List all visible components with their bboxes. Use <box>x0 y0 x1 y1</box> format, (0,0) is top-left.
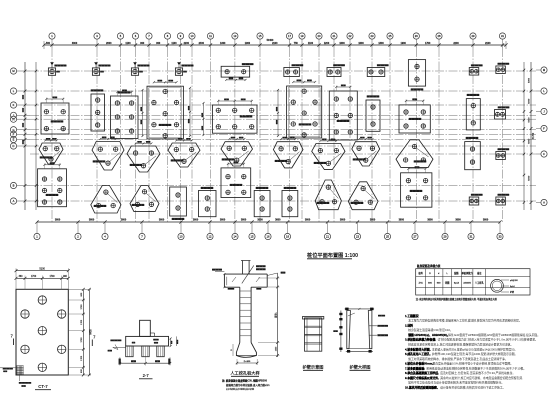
svg-text:3: 3 <box>96 34 98 38</box>
svg-text:φ8@200: φ8@200 <box>510 280 519 282</box>
svg-text:6φ14: 6φ14 <box>454 282 460 285</box>
svg-text:1: 1 <box>51 34 53 38</box>
svg-text:10: 10 <box>191 34 194 38</box>
svg-text:1900: 1900 <box>400 42 406 45</box>
svg-text:12: 12 <box>209 235 212 239</box>
svg-text:2100: 2100 <box>272 42 278 45</box>
svg-text:3300: 3300 <box>72 42 78 45</box>
svg-text:18: 18 <box>286 235 289 239</box>
svg-text:1: 1 <box>36 235 38 239</box>
svg-text:17: 17 <box>288 34 291 38</box>
svg-text:L: L <box>446 273 448 275</box>
svg-text:钢筋:HPB300(φ)、HRB335(Φ)。: 钢筋:HPB300(φ)、HRB335(Φ)。 <box>407 333 449 337</box>
svg-text:注: 未注明的承台均采用保护层翻边混凝土浇筑示意图连接大样,: 注: 未注明的承台均采用保护层翻边混凝土浇筑示意图连接大样, 平面详见各承台大样 <box>416 297 498 301</box>
svg-text:20: 20 <box>318 34 321 38</box>
svg-text:27: 27 <box>414 235 417 239</box>
svg-text:采用低应变动测法检测桩身完整性,检测数量不少于总桩数的30%: 采用低应变动测法检测桩身完整性,检测数量不少于总桩数的30%,且不少于10根。 <box>426 366 526 370</box>
svg-text:护壁示意图: 护壁示意图 <box>303 364 324 371</box>
svg-text:16: 16 <box>267 235 270 239</box>
svg-text:备注: 备注 <box>477 271 482 275</box>
svg-text:900: 900 <box>437 283 441 285</box>
svg-text:详图: 详图 <box>445 281 449 285</box>
svg-text:L: L <box>543 89 545 93</box>
svg-text:1600: 1600 <box>339 42 345 45</box>
svg-text:d: d <box>438 273 440 275</box>
svg-text:7: 7 <box>93 335 96 340</box>
svg-text:配筋: 配筋 <box>454 271 459 275</box>
svg-text:25: 25 <box>389 34 392 38</box>
svg-text:CT-7: CT-7 <box>38 384 48 389</box>
svg-text:750: 750 <box>294 42 299 45</box>
svg-text:19: 19 <box>301 34 304 38</box>
svg-text:3600: 3600 <box>455 219 461 222</box>
svg-text:3600: 3600 <box>55 219 61 222</box>
svg-text:31700: 31700 <box>533 132 535 139</box>
svg-text:3600: 3600 <box>159 219 165 222</box>
svg-text:K: K <box>13 103 15 107</box>
svg-text:2000: 2000 <box>106 42 112 45</box>
svg-text:1700: 1700 <box>81 355 83 361</box>
svg-text:1.工程概况: 1.工程概况 <box>405 314 419 318</box>
svg-text:900: 900 <box>81 292 83 296</box>
svg-text:360: 360 <box>19 276 24 278</box>
svg-text:1700: 1700 <box>81 304 83 310</box>
svg-text:3600: 3600 <box>220 219 226 222</box>
svg-text:护壁: 护壁 <box>510 290 514 294</box>
svg-text:5000: 5000 <box>529 175 531 181</box>
svg-text:15: 15 <box>251 235 254 239</box>
svg-text:垂直度允许偏差0.5%,桩径不得小于设计桩径,桩顶标高详平面: 垂直度允许偏差0.5%,桩径不得小于设计桩径,桩顶标高详平面图。 <box>432 362 513 366</box>
svg-text:主筋锚入承台内35d,箍筋φ8@200,加劲箍φ14@200: 主筋锚入承台内35d,箍筋φ8@200,加劲箍φ14@2000,保护层厚度50。 <box>432 347 517 351</box>
svg-text:B: B <box>13 184 15 188</box>
svg-text:33: 33 <box>499 235 502 239</box>
svg-text:6: 6 <box>135 34 137 38</box>
svg-text:21: 21 <box>333 34 336 38</box>
svg-text:1100: 1100 <box>171 42 177 45</box>
svg-text:5000: 5000 <box>529 98 531 104</box>
svg-text:2100: 2100 <box>485 42 491 45</box>
svg-text:M: M <box>12 69 15 73</box>
svg-text:3600: 3600 <box>121 219 127 222</box>
svg-text:单桩承载力: 单桩承载力 <box>462 271 473 275</box>
svg-text:3600: 3600 <box>340 219 346 222</box>
svg-text:2: 2 <box>77 235 79 239</box>
svg-text:J: J <box>13 113 15 117</box>
svg-text:1700: 1700 <box>81 319 83 325</box>
svg-text:注: 桩身混凝土强度等级C30, 钢筋HPB300: 注: 桩身混凝土强度等级C30, 钢筋HPB300 <box>222 379 268 383</box>
svg-text:8.承台及基础梁施工完毕后,: 8.承台及基础梁施工完毕后, <box>405 371 439 375</box>
svg-text:31: 31 <box>501 34 504 38</box>
svg-text:23: 23 <box>356 235 359 239</box>
svg-text:3600: 3600 <box>257 219 263 222</box>
svg-text:桩身配筋及承载力表: 桩身配筋及承载力表 <box>416 264 441 268</box>
svg-text:D: D <box>429 273 431 275</box>
svg-text:1200: 1200 <box>324 42 330 45</box>
svg-text:M: M <box>543 68 546 72</box>
svg-text:4: 4 <box>104 235 106 239</box>
svg-text:1100: 1100 <box>308 42 314 45</box>
svg-text:3600: 3600 <box>370 219 376 222</box>
svg-text:桩位平面布置图 1:100: 桩位平面布置图 1:100 <box>307 251 358 259</box>
svg-text:500: 500 <box>46 42 51 45</box>
svg-text:护壁厚100,C20混凝土现浇,每节高1000,配筋详护壁大: 护壁厚100,C20混凝土现浇,每节高1000,配筋详护壁大样图及示意图。 <box>432 352 517 356</box>
svg-text:人工挖孔: 人工挖孔 <box>475 281 485 285</box>
svg-text:25: 25 <box>386 235 389 239</box>
svg-text:C: C <box>543 152 545 156</box>
svg-text:1700: 1700 <box>31 276 37 278</box>
svg-text:2200: 2200 <box>453 42 459 45</box>
svg-text:3600: 3600 <box>305 219 311 222</box>
svg-text:50400: 50400 <box>267 39 274 42</box>
svg-text:29: 29 <box>472 34 475 38</box>
svg-text:21: 21 <box>326 235 329 239</box>
svg-text:J: J <box>543 110 545 114</box>
svg-text:3.单桩竖向承载力特征值:: 3.单桩竖向承载力特征值: <box>405 338 436 342</box>
svg-text:桩端持力层为中风化岩层,进入持力层≥1m: 桩端持力层为中风化岩层,进入持力层≥1m <box>226 383 270 387</box>
svg-text:7: 7 <box>148 34 150 38</box>
svg-text:1800: 1800 <box>220 42 226 45</box>
svg-text:1300: 1300 <box>378 42 384 45</box>
svg-text:3600: 3600 <box>89 219 95 222</box>
svg-text:3600: 3600 <box>483 219 489 222</box>
svg-text:施工时须采取有效的降水、排水措施,严禁水下浇筑混凝土,孔底虚: 施工时须采取有效的降水、排水措施,严禁水下浇筑混凝土,孔底虚土应清除干净。 <box>408 357 507 361</box>
svg-text:桩号: 桩号 <box>419 271 424 275</box>
svg-text:1700: 1700 <box>81 337 83 343</box>
svg-text:本工程为六层砖混结构住宅楼,基础采用人工挖孔灌注桩,桩端持力: 本工程为六层砖混结构住宅楼,基础采用人工挖孔灌注桩,桩端持力层为中风化泥质粉砂岩… <box>408 319 521 323</box>
svg-text:7.桩身质量检验:: 7.桩身质量检验: <box>405 366 425 370</box>
svg-text:10: 10 <box>180 235 183 239</box>
svg-text:28: 28 <box>438 34 441 38</box>
svg-text:焊条:E43型用于HPB300级钢筋,E50型用于HRB33: 焊条:E43型用于HPB300级钢筋,E50型用于HRB335级钢筋焊接,接头同… <box>448 333 540 337</box>
svg-text:14: 14 <box>234 235 237 239</box>
svg-text:L1=3200,L2=4000,Lb=240: L1=3200,L2=4000,Lb=240 <box>226 388 255 391</box>
svg-text:2200: 2200 <box>184 42 190 45</box>
svg-text:1600: 1600 <box>358 42 364 45</box>
svg-text:23: 23 <box>371 34 374 38</box>
svg-text:H: H <box>13 117 15 121</box>
svg-text:其余均以毫米计,施工时应与建筑、水电及设备图密切配合预留孔洞: 其余均以毫米计,施工时应与建筑、水电及设备图密切配合预留孔洞, <box>440 376 523 380</box>
svg-text:3600: 3600 <box>241 219 247 222</box>
svg-text:22: 22 <box>349 34 352 38</box>
svg-text:6.桩位允许偏差50mm,: 6.桩位允许偏差50mm, <box>405 362 433 366</box>
svg-text:D+300: D+300 <box>244 361 251 363</box>
svg-text:护壁大样图: 护壁大样图 <box>350 364 371 371</box>
svg-text:人工挖孔桩大样: 人工挖孔桩大样 <box>229 370 260 377</box>
svg-text:2-7: 2-7 <box>143 373 150 378</box>
svg-text:2400kN: 2400kN <box>463 283 471 285</box>
svg-text:31: 31 <box>470 235 473 239</box>
svg-text:7: 7 <box>11 334 14 339</box>
svg-text:900: 900 <box>81 368 83 372</box>
svg-text:15: 15 <box>259 34 262 38</box>
svg-text:D: D <box>13 144 15 148</box>
svg-text:11: 11 <box>209 34 212 38</box>
svg-text:26: 26 <box>415 34 418 38</box>
svg-text:5.成孔采用人工挖孔,: 5.成孔采用人工挖孔, <box>405 352 431 356</box>
svg-text:1700: 1700 <box>49 276 55 278</box>
svg-text:29: 29 <box>444 235 447 239</box>
svg-text:设计等有关单位验槽,合格后方可进行下道工序施工。: 设计等有关单位验槽,合格后方可进行下道工序施工。 <box>440 386 505 390</box>
svg-text:L: L <box>13 89 15 93</box>
svg-text:900: 900 <box>63 276 68 278</box>
svg-text:9.本图尺寸除标高以米计外,: 9.本图尺寸除标高以米计外, <box>405 376 439 380</box>
svg-text:D: D <box>231 349 233 351</box>
svg-text:7: 7 <box>141 235 143 239</box>
svg-text:1900: 1900 <box>245 42 251 45</box>
svg-text:10.基坑开挖后应通知勘察、: 10.基坑开挖后应通知勘察、 <box>405 386 440 390</box>
svg-text:桩身混凝土强度等级C30,垫层C10。: 桩身混凝土强度等级C30,垫层C10。 <box>408 328 453 332</box>
svg-text:9: 9 <box>180 34 182 38</box>
svg-text:2.材料: 2.材料 <box>405 323 413 327</box>
svg-text:5000: 5000 <box>529 138 531 144</box>
svg-text:13: 13 <box>233 34 236 38</box>
svg-text:900: 900 <box>140 42 145 45</box>
svg-text:F: F <box>543 127 545 131</box>
svg-text:5: 5 <box>120 34 122 38</box>
svg-text:8: 8 <box>167 34 169 38</box>
svg-text:1100: 1100 <box>125 42 131 45</box>
svg-text:桩长L: 桩长L <box>273 311 277 317</box>
svg-text:5000: 5000 <box>529 77 531 83</box>
svg-text:4.桩身配筋详大样图,: 4.桩身配筋详大样图, <box>405 347 431 351</box>
svg-text:详"桩身配筋及承载力表",桩进入持力层深度不小于1.0m,且: 详"桩身配筋及承载力表",桩进入持力层深度不小于1.0m,且不小于1.5倍桩径要… <box>438 338 538 342</box>
svg-text:如有不符之处请及时与设计单位联系解决,未尽事宜按现行有关规范: 如有不符之处请及时与设计单位联系解决,未尽事宜按现行有关规范规程执行。 <box>408 381 504 385</box>
svg-text:800: 800 <box>428 283 432 285</box>
svg-text:900: 900 <box>156 42 161 45</box>
svg-text:3600: 3600 <box>275 219 281 222</box>
svg-text:1000: 1000 <box>275 346 277 351</box>
svg-text:3600: 3600 <box>399 219 405 222</box>
svg-text:桩底应支承在完整基岩上,施工时应逐桩检验,确保桩端持力层满足: 桩底应支承在完整基岩上,施工时应逐桩检验,确保桩端持力层满足设计要求方可浇筑。 <box>408 342 513 346</box>
svg-text:A: A <box>13 199 15 203</box>
svg-text:E: E <box>13 138 15 142</box>
svg-text:3600: 3600 <box>427 219 433 222</box>
svg-text:5100: 5100 <box>39 268 45 271</box>
svg-text:3600: 3600 <box>193 219 199 222</box>
svg-text:ZH1: ZH1 <box>419 283 424 285</box>
svg-text:1700: 1700 <box>425 42 431 45</box>
svg-text:A: A <box>543 201 545 205</box>
svg-text:5000: 5000 <box>529 117 531 123</box>
svg-text:应及时回填土,分层夯实,压实系数不小于0.94,严禁扰动桩身: 应及时回填土,分层夯实,压实系数不小于0.94,严禁扰动桩身。 <box>440 371 515 375</box>
svg-text:2400: 2400 <box>199 42 205 45</box>
